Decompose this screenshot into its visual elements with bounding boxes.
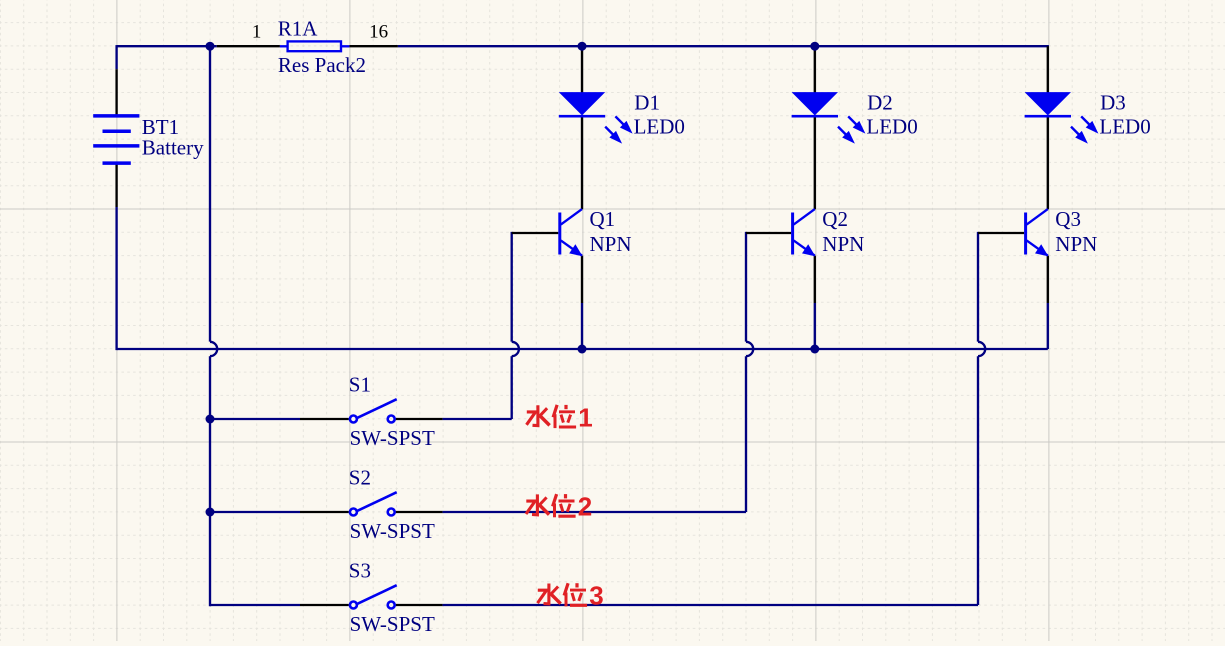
svg-text:Res Pack2: Res Pack2 bbox=[278, 53, 366, 77]
wire: S2 riser net lower part bbox=[745, 356, 747, 512]
wire: D3 anode branch (black) bbox=[1047, 46, 1049, 93]
wire: Q3 emitter pin (black) bbox=[1047, 256, 1049, 303]
wire: top horizontal net from battery to R1A pin 1 bbox=[117, 45, 217, 47]
wire: Q3 emitter to bus net bbox=[1047, 303, 1049, 349]
transistor Q3 bbox=[1024, 209, 1048, 256]
svg-text:16: 16 bbox=[369, 22, 388, 43]
wire: Q2 emitter to bus net bbox=[814, 303, 816, 349]
wire: S3 row net to riser bbox=[443, 604, 978, 606]
resistor R1A bbox=[280, 41, 350, 51]
svg-text:LED0: LED0 bbox=[866, 115, 917, 139]
wire: top horizontal net from R1A pin 16 to D3 branch bbox=[398, 45, 1049, 47]
junction: S2 row at junction column bbox=[206, 508, 215, 517]
svg-text:R1A: R1A bbox=[278, 17, 319, 41]
wire: junction column vertical net (S1 to S2 row) bbox=[209, 419, 211, 512]
wire: bottom bus horizontal net bbox=[117, 348, 1048, 350]
wire: S1 row net from junction column bbox=[210, 418, 300, 420]
svg-text:D3: D3 bbox=[1100, 91, 1126, 115]
wire: D1 cathode to Q1 collector (black) bbox=[581, 117, 583, 209]
switch S2 bbox=[350, 492, 397, 515]
wire: Q2 emitter pin (black) bbox=[814, 256, 816, 303]
junction: top net at D2 branch bbox=[810, 42, 819, 51]
wire: S1 riser net upper part to Q1 base bbox=[511, 232, 513, 342]
svg-text:S1: S1 bbox=[349, 373, 371, 397]
wire: S3 riser net lower part bbox=[977, 356, 979, 605]
svg-text:Q1: Q1 bbox=[590, 207, 616, 231]
wire: D2 cathode to Q2 collector (black) bbox=[814, 117, 816, 209]
switch S1 bbox=[350, 399, 397, 422]
wire: S1 row net to riser bbox=[443, 418, 512, 420]
svg-text:SW-SPST: SW-SPST bbox=[350, 519, 435, 543]
svg-text:Q2: Q2 bbox=[822, 207, 848, 231]
svg-text:Battery: Battery bbox=[142, 135, 204, 159]
svg-text:Q3: Q3 bbox=[1055, 207, 1081, 231]
wire: S1 riser net lower part bbox=[511, 356, 513, 419]
svg-text:3: 3 bbox=[589, 581, 603, 611]
wire: R1A pin 1 lead (black) bbox=[217, 45, 280, 47]
svg-text:LED0: LED0 bbox=[634, 115, 685, 139]
junction: S1 row at junction column bbox=[206, 415, 215, 424]
wire: Q1 emitter pin (black) bbox=[581, 256, 583, 303]
wire: battery to ground bus net bbox=[115, 207, 117, 350]
wire: D2 anode branch (black) bbox=[814, 46, 816, 93]
wire: S2 pin 1 lead (black) bbox=[300, 511, 349, 513]
net label 水位1 (water level 1) bbox=[527, 402, 593, 432]
svg-text:NPN: NPN bbox=[822, 232, 864, 256]
svg-text:SW-SPST: SW-SPST bbox=[350, 612, 435, 636]
svg-text:D1: D1 bbox=[634, 91, 660, 115]
junction: top net at D1 branch bbox=[578, 42, 587, 51]
svg-text:D2: D2 bbox=[867, 91, 893, 115]
svg-text:2: 2 bbox=[578, 492, 592, 522]
wire: junction column vertical net (S2 to S3 row) bbox=[209, 512, 211, 606]
wire: junction column vertical net (top to S1) upper part bbox=[209, 46, 211, 341]
wire: battery positive pin (black) bbox=[115, 69, 117, 116]
LED D2 bbox=[792, 92, 866, 144]
junction: bus at Q2 emitter bbox=[810, 345, 819, 354]
net label 水位3 (water level 3) bbox=[538, 581, 604, 611]
junction: bus at Q1 emitter bbox=[578, 345, 587, 354]
wire: S3 row net from junction column bbox=[210, 604, 300, 606]
wire: battery negative pin (black) bbox=[115, 163, 117, 207]
wire: S3 pin 2 lead (black) bbox=[396, 604, 443, 606]
svg-text:1: 1 bbox=[252, 22, 262, 43]
svg-text:NPN: NPN bbox=[1055, 232, 1097, 256]
wire: S3 riser net upper part to Q3 base bbox=[977, 232, 979, 342]
wire: junction column vertical net (bus to S1 row) bbox=[209, 356, 211, 419]
transistor Q2 bbox=[791, 209, 815, 256]
svg-text:NPN: NPN bbox=[590, 232, 632, 256]
wire: Q1 emitter to bus net bbox=[581, 303, 583, 349]
wire hop: junction column over bus bbox=[210, 342, 217, 356]
wire: Q3 base pin (black) bbox=[978, 232, 1024, 234]
wire: D1 anode branch (black) bbox=[581, 46, 583, 93]
wire: S1 pin 2 lead (black) bbox=[396, 418, 443, 420]
battery BT1 bbox=[93, 116, 139, 163]
LED D3 bbox=[1025, 92, 1099, 144]
wire hop: S3 riser over bus bbox=[978, 342, 985, 356]
LED D1 bbox=[559, 92, 633, 144]
wire: battery top net segment bbox=[115, 45, 117, 69]
wire: S2 row net from junction column bbox=[210, 511, 300, 513]
wire: S1 pin 1 lead (black) bbox=[300, 418, 349, 420]
wire: R1A pin 16 lead (black) bbox=[349, 45, 398, 47]
junction: top net at junction column bbox=[206, 42, 215, 51]
transistor Q1 bbox=[558, 209, 582, 256]
svg-text:1: 1 bbox=[578, 402, 592, 432]
wire hop: S1 riser over bus bbox=[512, 342, 519, 356]
wire hop: S2 riser over bus bbox=[746, 342, 753, 356]
wire: S2 pin 2 lead (black) bbox=[396, 511, 443, 513]
wire: S2 row net to riser bbox=[443, 511, 746, 513]
wire: S3 pin 1 lead (black) bbox=[300, 604, 349, 606]
wire: Q1 base pin (black) bbox=[512, 232, 559, 234]
net label 水位2 (water level 2) bbox=[526, 492, 592, 522]
wire: D3 cathode to Q3 collector (black) bbox=[1047, 117, 1049, 209]
wire: S2 riser net upper part to Q2 base bbox=[745, 232, 747, 342]
svg-text:S2: S2 bbox=[349, 466, 371, 490]
switch S3 bbox=[350, 585, 397, 608]
svg-text:LED0: LED0 bbox=[1099, 115, 1150, 139]
svg-text:S3: S3 bbox=[349, 559, 371, 583]
wire: Q2 base pin (black) bbox=[746, 232, 791, 234]
svg-text:SW-SPST: SW-SPST bbox=[350, 426, 435, 450]
